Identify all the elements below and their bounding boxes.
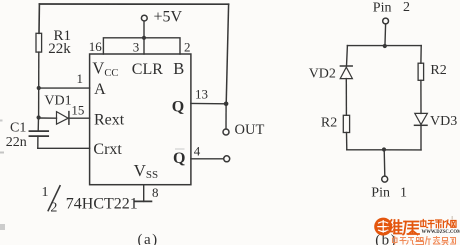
wire pin 13 (Q) to rail — [191, 102, 226, 104]
Pin 1 terminal circle — [382, 176, 388, 182]
svg-text:R2: R2 — [430, 63, 446, 78]
logo text 维库 (drawn strokes) — [388, 220, 420, 235]
svg-text:1: 1 — [77, 71, 84, 86]
wire right branch upper — [420, 46, 422, 64]
svg-text:R2: R2 — [321, 115, 337, 130]
watermark logo group — [374, 218, 460, 245]
node junction at R1/pin1 — [37, 86, 41, 90]
svg-text:3: 3 — [133, 40, 140, 55]
logo text 电子市场网 small (drawn strokes) — [421, 220, 456, 229]
ground bar — [135, 200, 151, 202]
logo circle — [374, 218, 392, 236]
svg-text:C1: C1 — [10, 120, 26, 135]
svg-text:Pin: Pin — [371, 186, 390, 201]
+5V supply terminal — [141, 15, 147, 21]
wire pin 1 (A) to IC — [39, 87, 90, 89]
wire right rail — [226, 4, 228, 104]
wire top rail — [39, 3, 228, 5]
svg-text:1: 1 — [400, 185, 407, 200]
svg-text:15: 15 — [71, 102, 84, 117]
diode VD3 (pointing down) — [415, 113, 428, 124]
pin 4 terminal circle — [224, 156, 230, 162]
svg-text:A: A — [94, 81, 106, 98]
svg-text:Q: Q — [173, 150, 185, 167]
svg-text:13: 13 — [195, 87, 208, 102]
wire right branch middle — [420, 80, 422, 113]
fraction slash of 1/2 — [48, 186, 60, 211]
IC U1 74HCT221 box — [90, 54, 191, 185]
wire R1 bottom to pin-1 node — [38, 52, 40, 88]
wire C1 bottom to Crxt pin — [38, 147, 90, 149]
wire left branch upper — [346, 46, 349, 66]
wire +5V bracket over pins 16,3,2 — [103, 38, 180, 54]
resistor R1 — [36, 33, 42, 52]
svg-text:OUT: OUT — [235, 122, 265, 138]
svg-text:2: 2 — [184, 40, 191, 55]
svg-text:22k: 22k — [48, 41, 71, 57]
svg-text:VD1: VD1 — [44, 93, 71, 108]
wire bottom bus of (b) — [347, 149, 421, 151]
wire pin 4 (Q bar) — [191, 158, 224, 160]
OUT terminal circle — [223, 129, 229, 135]
svg-text:8: 8 — [152, 185, 159, 200]
svg-text:4: 4 — [194, 143, 201, 158]
circuit (b): Pin 2 terminal circle — [383, 18, 389, 24]
svg-text:+5V: +5V — [154, 9, 183, 26]
resistor R2 (left) — [343, 115, 349, 132]
wire left rail between nodes — [38, 88, 40, 118]
svg-text:74HCT221: 74HCT221 — [66, 196, 138, 213]
svg-text:Crxt: Crxt — [93, 141, 122, 158]
node junction Q/OUT — [224, 102, 229, 107]
svg-text:22n: 22n — [6, 135, 27, 150]
svg-text:Pin: Pin — [373, 0, 392, 15]
node junction at +5V bracket — [142, 36, 146, 40]
diode VD1 — [39, 117, 57, 119]
node junction top of (b) — [383, 44, 387, 48]
wire pin 3 stub and +5V drop — [143, 21, 145, 54]
svg-text:CLR: CLR — [132, 61, 163, 78]
wire pin2 terminal drop — [384, 24, 387, 44]
svg-text:16: 16 — [89, 39, 103, 54]
node junction bottom of (b) — [382, 147, 386, 151]
logo bottom row 电子元器件交易网 (drawn strokes) — [393, 237, 456, 245]
wire top bus of (b) — [347, 45, 421, 47]
scan artifact marks on left edge — [0, 120, 3, 122]
svg-text:1: 1 — [42, 185, 49, 200]
resistor R2 (right) — [418, 63, 424, 80]
wire left branch lower — [346, 133, 348, 150]
wire pin1 terminal drop — [383, 150, 386, 177]
svg-text:VD2: VD2 — [309, 67, 336, 82]
capacitor C1 — [37, 118, 39, 132]
wire node down to OUT terminal — [225, 104, 227, 129]
wire left rail upper — [38, 4, 40, 33]
svg-text:B: B — [173, 59, 184, 78]
diode VD2 (pointing up) — [340, 65, 352, 67]
wire pin 8 (VSS) stub — [143, 185, 145, 202]
node junction at VD1/C1 — [37, 115, 41, 119]
svg-text:Q: Q — [172, 99, 184, 116]
svg-text:VD3: VD3 — [430, 114, 457, 129]
svg-text:Rext: Rext — [94, 111, 125, 128]
svg-text:VCC: VCC — [92, 59, 118, 79]
svg-text:2: 2 — [403, 0, 410, 15]
svg-text:VSS: VSS — [134, 161, 159, 181]
svg-text:(a): (a) — [138, 232, 159, 245]
svg-text:WWW.DZSC.COM: WWW.DZSC.COM — [422, 230, 460, 235]
svg-text:2: 2 — [50, 200, 57, 215]
